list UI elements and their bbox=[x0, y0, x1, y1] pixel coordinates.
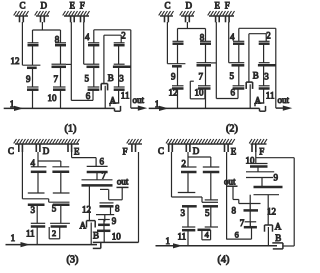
gear mesh 11 bbox=[259, 86, 270, 89]
wire: gear7 to clutch A (3) bbox=[88, 185, 90, 220]
label 11 (4) bbox=[178, 232, 187, 242]
svg-text:11: 11 bbox=[121, 91, 130, 101]
wire: shaft 9-10 (3) bbox=[103, 225, 105, 231]
wire: shaft to input line col-8 bbox=[205, 89, 207, 109]
clutch A jaw from input shaft bbox=[115, 106, 121, 111]
svg-text:5: 5 bbox=[52, 204, 57, 214]
wire: shaft left column mid bbox=[177, 44, 179, 64]
svg-text:7: 7 bbox=[102, 171, 107, 181]
gear 8 plate small (3) bbox=[100, 188, 109, 190]
svg-text:3: 3 bbox=[31, 205, 36, 215]
svg-text:out: out bbox=[278, 95, 290, 105]
label 8 bbox=[55, 35, 60, 45]
gear mesh 7 bbox=[197, 63, 212, 66]
input arrow bbox=[14, 106, 24, 111]
label 2 (4) bbox=[182, 159, 187, 169]
label 10 (3) bbox=[112, 231, 122, 241]
label 5 bbox=[230, 71, 235, 81]
svg-text:9: 9 bbox=[112, 216, 117, 226]
label 7 bbox=[199, 72, 204, 82]
gear 5 (4) bbox=[203, 205, 218, 208]
svg-text:5: 5 bbox=[205, 208, 210, 218]
label 11 (3) bbox=[26, 228, 35, 238]
clutch A outer jaw (4) bbox=[265, 225, 273, 232]
svg-text:C: C bbox=[20, 1, 26, 11]
label E (3) bbox=[74, 147, 80, 157]
svg-text:F: F bbox=[259, 147, 264, 157]
gear mesh 5 with F plate bbox=[84, 64, 100, 67]
svg-text:9: 9 bbox=[26, 74, 31, 84]
svg-text:12: 12 bbox=[11, 56, 20, 66]
gear 5 (3) bbox=[53, 204, 70, 207]
clutch A jaw from input shaft bbox=[260, 106, 266, 111]
svg-text:10: 10 bbox=[48, 93, 58, 103]
gear 12 (thick bar) bbox=[172, 65, 182, 68]
input arrow (3) bbox=[21, 242, 31, 247]
svg-text:9: 9 bbox=[171, 72, 176, 82]
label 10 (4) bbox=[246, 155, 256, 165]
svg-text:2: 2 bbox=[182, 159, 187, 169]
wire: brake C drop (4) bbox=[171, 152, 173, 197]
wire: col188 top (4) bbox=[187, 157, 189, 167]
brake C (band brake to frame) bbox=[14, 11, 29, 22]
wire: C step connector (3) bbox=[22, 199, 69, 202]
label B bbox=[108, 73, 114, 83]
wire: input shaft bbox=[4, 107, 115, 109]
wire: shaft gear 7 to 10 bbox=[60, 67, 62, 87]
svg-text:2: 2 bbox=[52, 229, 56, 238]
wire: mesh10 stem to clutch B (3) bbox=[103, 231, 105, 243]
wire: shaft 9 lower (4) bbox=[261, 178, 263, 188]
wire: shaft col-8 mid bbox=[205, 44, 207, 63]
svg-text:3: 3 bbox=[119, 74, 124, 84]
label E (4) bbox=[231, 147, 237, 157]
label 5 (4) bbox=[205, 208, 210, 218]
gear mesh 4 (4) bbox=[198, 227, 219, 230]
caption (3) bbox=[67, 255, 79, 266]
wire: shaft gear 7 to 10 bbox=[205, 65, 207, 86]
svg-text:5: 5 bbox=[230, 71, 235, 81]
wire: shaft 2-3 bbox=[118, 45, 120, 64]
label 9 bbox=[171, 72, 176, 82]
label 3 bbox=[119, 74, 124, 84]
svg-text:A: A bbox=[80, 220, 87, 230]
gear mesh 11 bbox=[114, 87, 125, 90]
gear 3 (4) bbox=[182, 205, 197, 208]
wire: 8 plate drop (3) bbox=[108, 189, 110, 199]
label 6 bbox=[86, 91, 91, 101]
wire: input shaft bbox=[149, 107, 260, 109]
wire: brake E drop bbox=[70, 22, 72, 100]
wire: shaft 11 to clutch A bbox=[263, 89, 265, 104]
wire: bar to mesh8 (4) bbox=[249, 195, 251, 204]
svg-text:F: F bbox=[225, 1, 230, 11]
wire: brake D drop bbox=[41, 22, 43, 30]
svg-text:(4): (4) bbox=[218, 255, 230, 266]
gear mesh 3 (thick bar to out shaft) bbox=[113, 64, 131, 67]
gear mesh 2 bbox=[259, 41, 270, 43]
label 2 bbox=[121, 31, 126, 41]
wire: col38 mid (3) bbox=[37, 172, 39, 193]
label 6 (4) bbox=[235, 231, 239, 240]
label D (4) bbox=[193, 146, 200, 156]
wire: shaft 2-3 bbox=[263, 44, 265, 63]
svg-text:B: B bbox=[275, 233, 281, 243]
gear mesh 11 (3) bbox=[31, 223, 45, 226]
wire: input shaft (4) bbox=[156, 245, 278, 247]
svg-text:7: 7 bbox=[54, 74, 59, 84]
label 1 (4) input bbox=[166, 236, 171, 246]
wire: shaft 5-6 bbox=[93, 67, 95, 87]
gear mesh 6 (3) bbox=[87, 166, 108, 172]
svg-text:(1): (1) bbox=[65, 124, 77, 135]
wire: shaft 11 to clutch A bbox=[118, 90, 120, 103]
wire: carrier bar from D bbox=[33, 29, 61, 31]
label 7 (3) bbox=[102, 171, 107, 181]
svg-text:E: E bbox=[215, 1, 221, 11]
input arrow (4) bbox=[173, 243, 183, 248]
wire: bar to mesh9 (3) bbox=[104, 215, 106, 222]
gear mesh 8 bbox=[55, 43, 66, 45]
wire: brake E drop bbox=[215, 22, 217, 99]
wire: E plate tap bbox=[211, 62, 216, 64]
wire: col188 to input (4) bbox=[187, 230, 189, 246]
input arrow bbox=[159, 106, 169, 111]
brake D (3) bbox=[36, 144, 40, 152]
svg-text:11: 11 bbox=[178, 232, 187, 242]
wire: output line bbox=[131, 107, 142, 109]
gear 10 bar (3) bbox=[97, 230, 110, 233]
gear mesh 6 bbox=[88, 87, 100, 90]
wire: clutch A inner (4) bbox=[267, 227, 269, 246]
wire: right out vertical (4) bbox=[293, 158, 295, 246]
gear mesh 5 plate (4) bbox=[205, 199, 218, 201]
gear 3 (3) bbox=[28, 204, 45, 207]
gear mesh 8 (4) bbox=[239, 204, 261, 211]
gear mesh upper-right (4) bbox=[203, 167, 220, 172]
svg-text:8: 8 bbox=[232, 206, 237, 216]
wire: clutch A inner (3) bbox=[90, 223, 92, 245]
label C bbox=[20, 1, 26, 11]
clutch B outer jaw bbox=[101, 84, 107, 91]
wire: clutch B inner to input bbox=[249, 84, 251, 108]
wire: C step connector (4) bbox=[172, 197, 219, 202]
label 2 bbox=[266, 31, 271, 41]
svg-text:10: 10 bbox=[112, 231, 122, 241]
wire: shaft left column mid bbox=[32, 45, 34, 65]
stirrup under gear 4 (4) bbox=[202, 230, 211, 240]
wire: ring link top (4 to out shaft) bbox=[239, 28, 276, 41]
label D bbox=[186, 1, 193, 11]
svg-text:6: 6 bbox=[100, 157, 105, 167]
wire: shaft col-8 mid bbox=[60, 45, 62, 64]
svg-text:E: E bbox=[231, 147, 237, 157]
wire: D carrier bar (3) bbox=[38, 160, 61, 162]
wire: brake F drop (3) bbox=[138, 152, 140, 242]
gear mesh 2 (4) bbox=[181, 167, 197, 172]
svg-text:(2): (2) bbox=[226, 124, 238, 135]
wire: col210 top (4) bbox=[210, 157, 212, 167]
label 5 (3) bbox=[52, 204, 57, 214]
label D (3) bbox=[43, 146, 50, 156]
wire: shaft to input line col-8 bbox=[60, 90, 62, 109]
wire: clutch A feed (4) bbox=[267, 195, 269, 225]
wire: shaft left column upper bbox=[32, 30, 34, 43]
svg-text:5: 5 bbox=[85, 74, 90, 84]
wire: shaft 3-11 bbox=[118, 67, 120, 87]
gear mesh 5 plate (3) bbox=[53, 192, 70, 194]
frame hatched bar (4) bbox=[166, 139, 235, 144]
svg-text:A: A bbox=[275, 222, 282, 232]
label 5 bbox=[85, 74, 90, 84]
brake F bbox=[226, 16, 230, 22]
wire: col210 lower (4) bbox=[210, 206, 212, 227]
gear mesh 10 bbox=[198, 86, 211, 89]
wire: E drop (3) bbox=[71, 152, 73, 158]
label C (4) bbox=[158, 146, 164, 156]
wire: shaft 5-6 bbox=[238, 65, 240, 86]
label 6 bbox=[231, 87, 236, 97]
label out bbox=[278, 95, 290, 105]
wire: bar under 8 (3) bbox=[96, 214, 114, 216]
brake D bbox=[180, 11, 195, 22]
gear mesh 7 (3) bbox=[82, 180, 113, 186]
gear mesh 8 (3) bbox=[100, 203, 114, 206]
svg-text:4: 4 bbox=[31, 158, 36, 168]
wire: brake F to gear-5 plate bbox=[83, 22, 85, 64]
brake F (3) bbox=[132, 144, 136, 152]
label 1 (3) input bbox=[11, 233, 16, 243]
wire: out shaft vertical bbox=[275, 28, 277, 108]
svg-text:8: 8 bbox=[115, 204, 120, 214]
svg-text:9: 9 bbox=[274, 173, 279, 183]
wire: shaft to input line left bbox=[32, 90, 34, 109]
label 6 (3) bbox=[100, 157, 105, 167]
label 8 (4) bbox=[232, 206, 237, 216]
gear mesh 7 bbox=[52, 64, 67, 67]
wire: mesh8 to mesh7 (4) bbox=[249, 210, 251, 221]
wire: brake C to gear-12 plate bbox=[167, 22, 185, 64]
gear mesh 8 bbox=[200, 41, 211, 43]
wire: gear 6 to brake E bbox=[71, 90, 93, 101]
svg-text:C: C bbox=[158, 146, 164, 156]
svg-text:B: B bbox=[93, 231, 99, 241]
svg-text:2: 2 bbox=[266, 31, 271, 41]
wire: hook to out vertical (4) bbox=[283, 245, 294, 247]
gear mesh 9/10 left bbox=[172, 86, 184, 89]
svg-text:1: 1 bbox=[11, 233, 16, 243]
wire: shaft col-8 upper bbox=[60, 30, 62, 43]
label 7 bbox=[54, 74, 59, 84]
brake F bbox=[81, 16, 85, 22]
brake D bbox=[35, 11, 50, 22]
gear mesh 3 plate (4) bbox=[178, 192, 196, 194]
label 8 bbox=[200, 33, 205, 43]
label 9 (4) bbox=[274, 173, 279, 183]
label 9 bbox=[26, 74, 31, 84]
label F (3) bbox=[123, 147, 128, 157]
brake C (band brake to frame) bbox=[159, 11, 174, 22]
label B (3) bbox=[93, 231, 99, 241]
wire: shaft col-8 upper bbox=[205, 29, 207, 42]
gear mesh 11 (4) bbox=[182, 227, 195, 230]
label 10 bbox=[48, 93, 58, 103]
label B bbox=[253, 71, 259, 81]
svg-text:F: F bbox=[80, 1, 85, 11]
caption (2) bbox=[226, 124, 238, 135]
label 12 (3) bbox=[82, 204, 91, 214]
svg-text:out: out bbox=[224, 177, 236, 187]
gear mesh 5 with F plate bbox=[229, 63, 245, 66]
label 11 bbox=[121, 91, 130, 101]
label out (4) bbox=[224, 177, 236, 187]
wire: shaft gear 9 bbox=[177, 66, 179, 86]
gear mesh 6 bbox=[233, 86, 245, 89]
svg-text:C: C bbox=[8, 146, 14, 156]
label D bbox=[41, 1, 48, 11]
svg-text:11: 11 bbox=[26, 228, 35, 238]
svg-text:10: 10 bbox=[195, 87, 205, 97]
gear mesh 4 bbox=[88, 43, 99, 45]
gear mesh 3 (thick bar to out shaft) bbox=[258, 63, 276, 66]
gear mesh 9/10 left bbox=[27, 87, 39, 90]
brake E (4) bbox=[225, 144, 229, 152]
wire: col210 mid (4) bbox=[210, 172, 212, 200]
gear mesh 4 bbox=[233, 41, 244, 43]
brake F (4) bbox=[252, 144, 256, 152]
label 4 bbox=[85, 32, 90, 42]
label A bbox=[255, 96, 262, 106]
wire: stirrup under gear 2 (3) bbox=[49, 227, 60, 239]
label A (3) bbox=[80, 220, 87, 230]
svg-text:B: B bbox=[108, 73, 114, 83]
gear mesh upper-right (3) bbox=[52, 167, 69, 172]
label E bbox=[70, 1, 76, 11]
wire: brake D drop bbox=[186, 22, 188, 29]
caption (4) bbox=[218, 255, 230, 266]
frame hatched bar (3) bbox=[14, 139, 80, 144]
svg-text:3: 3 bbox=[264, 71, 269, 81]
label 2 (3) bbox=[52, 229, 56, 238]
svg-text:2: 2 bbox=[121, 31, 126, 41]
wire: shaft 4-5 bbox=[238, 44, 240, 63]
stirrup around gear 10 (2) bbox=[190, 81, 205, 99]
wire: shaft 6-7 (3) bbox=[96, 172, 98, 180]
wire: col38 top (3) bbox=[37, 161, 39, 167]
wire: shaft 4-5 bbox=[93, 45, 95, 64]
svg-text:out: out bbox=[117, 176, 129, 186]
svg-text:6: 6 bbox=[235, 231, 239, 240]
svg-text:E: E bbox=[70, 1, 76, 11]
label 11 bbox=[266, 91, 275, 101]
output arrow bbox=[283, 106, 293, 111]
svg-text:D: D bbox=[193, 146, 200, 156]
wire: clutch B inner to input bbox=[104, 86, 106, 109]
gear mesh 12 upper pair bbox=[28, 43, 39, 45]
wire: col188 mid (4) bbox=[187, 172, 189, 193]
clutch B outer jaw bbox=[246, 82, 252, 89]
label A (4) bbox=[275, 222, 282, 232]
label B (4) bbox=[275, 233, 281, 243]
svg-text:12: 12 bbox=[82, 204, 91, 214]
label 4 (4) bbox=[205, 231, 210, 240]
label out bbox=[133, 95, 145, 105]
wire: brake C to gear-12 plate bbox=[22, 22, 40, 65]
wire: output line bbox=[276, 107, 287, 109]
svg-text:E: E bbox=[74, 147, 80, 157]
wire: D drop (4) bbox=[187, 152, 189, 157]
gear mesh 2 (3) bbox=[50, 223, 70, 226]
wire: shaft left column upper bbox=[177, 29, 179, 42]
svg-text:11: 11 bbox=[266, 91, 275, 101]
svg-text:4: 4 bbox=[205, 231, 210, 240]
wire: D carrier bar (4) bbox=[188, 156, 211, 158]
svg-text:1: 1 bbox=[166, 236, 171, 246]
brake E (3) bbox=[68, 144, 72, 152]
svg-text:7: 7 bbox=[199, 72, 204, 82]
svg-text:out: out bbox=[133, 95, 145, 105]
label 3 bbox=[264, 71, 269, 81]
wire: ring link top (4 to out shaft) bbox=[94, 30, 131, 43]
svg-text:6: 6 bbox=[86, 91, 91, 101]
wire: F to out vertical (4) bbox=[256, 157, 294, 159]
frame hatched bar F (4) bbox=[249, 139, 267, 144]
wire: input shaft (3) bbox=[6, 244, 98, 246]
label 10 bbox=[195, 87, 205, 97]
ring gear 6 stirrup (4) bbox=[226, 227, 251, 239]
svg-text:6: 6 bbox=[231, 87, 236, 97]
wire: out drop to mesh 8 (4) bbox=[238, 200, 240, 204]
svg-text:B: B bbox=[253, 71, 259, 81]
wire: D drop (3) bbox=[37, 152, 39, 161]
gear mesh 9 (3) bbox=[98, 220, 110, 225]
wire: col188 lower (4) bbox=[187, 206, 189, 227]
label 12 (4) bbox=[267, 207, 276, 217]
wire: col60 lower (3) bbox=[60, 205, 62, 224]
label C (3) bbox=[8, 146, 14, 156]
svg-text:C: C bbox=[165, 1, 171, 11]
label 1 (input) bbox=[155, 99, 160, 109]
wire: shaft to input line left bbox=[177, 89, 179, 109]
label 7 (4) bbox=[240, 218, 245, 228]
wire: out shaft vertical bbox=[130, 30, 132, 108]
label C bbox=[165, 1, 171, 11]
wire: output T (4) bbox=[227, 186, 239, 199]
label 12 bbox=[169, 88, 178, 98]
svg-text:A: A bbox=[110, 96, 117, 106]
wire: shaft 3-11 bbox=[263, 65, 265, 86]
wire: inner link (B to gear 2) bbox=[104, 35, 121, 83]
wire: E to gear 6 (3) bbox=[72, 158, 97, 167]
gear mesh 12 upper pair bbox=[173, 41, 184, 43]
svg-text:(3): (3) bbox=[67, 255, 79, 266]
gear mesh 9 (4) bbox=[246, 172, 274, 178]
clutch A jaw from gear 11 bbox=[255, 103, 264, 106]
wire: E plate tap bbox=[66, 63, 71, 65]
wire: output T (3) bbox=[109, 187, 129, 199]
label 9 (3) bbox=[112, 216, 117, 226]
wire: brake F to gear-5 plate bbox=[228, 22, 230, 63]
label A bbox=[110, 96, 117, 106]
label F bbox=[80, 1, 85, 11]
label 3 (4) bbox=[181, 208, 186, 218]
wire: shaft gear 9 bbox=[32, 68, 34, 87]
wire: E drop (4) bbox=[226, 152, 228, 239]
brake C (3) bbox=[19, 144, 23, 152]
wire: col38 lower (3) bbox=[36, 205, 38, 224]
gear mesh 3 plate (3) bbox=[28, 192, 45, 194]
svg-text:D: D bbox=[41, 1, 48, 11]
